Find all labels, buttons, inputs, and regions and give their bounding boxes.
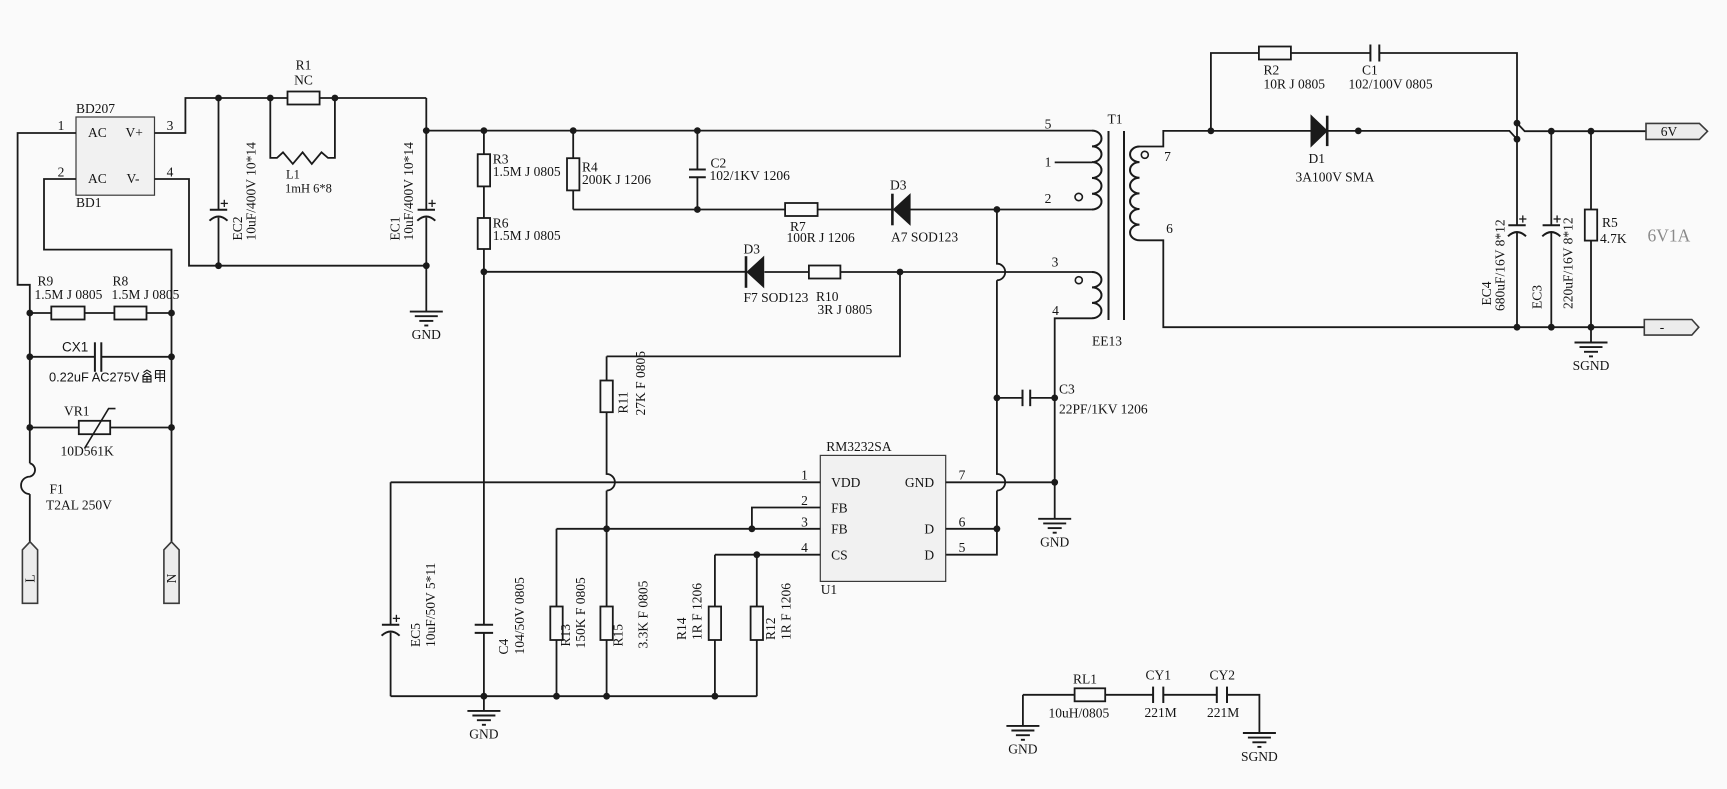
svg-text:SGND: SGND (1241, 749, 1278, 764)
wire T1 pin 6 to output minus rail (1140, 240, 1645, 327)
ground GND primary (410, 266, 443, 343)
wire R15 leads (606, 529, 608, 696)
svg-text:R2: R2 (1264, 62, 1280, 77)
junction N rail / R8 (168, 310, 175, 317)
wire U1 pin3 FB line (557, 528, 821, 530)
wire gnd stub left (1022, 695, 1024, 726)
wire bridge pin4 to DC minus rail (155, 179, 427, 266)
junction C3 left (994, 395, 1001, 402)
wire bridge pin2 to N line (44, 179, 172, 313)
svg-text:10D561K: 10D561K (61, 444, 114, 459)
junction R14 gnd (712, 693, 719, 700)
svg-text:EC3: EC3 (1530, 285, 1545, 309)
svg-text:221M: 221M (1145, 705, 1177, 720)
wire T1 pin 7 to D1 line (1140, 131, 1518, 147)
svg-text:AC: AC (88, 171, 107, 186)
terminal 6V (1646, 123, 1708, 139)
svg-text:FB: FB (831, 500, 848, 515)
junction R3 top (481, 127, 488, 134)
svg-text:RM3232SA: RM3232SA (826, 439, 892, 454)
capacitor CY2 (1207, 668, 1239, 721)
wire U1 pin7 GND line (946, 481, 1055, 483)
resistor R7 (785, 203, 855, 245)
svg-text:BD1: BD1 (76, 195, 102, 210)
svg-text:D: D (924, 548, 934, 563)
capacitor CY1 (1145, 668, 1177, 721)
capacitor C1 (1349, 45, 1433, 92)
svg-text:GND: GND (905, 475, 934, 490)
svg-text:F1: F1 (50, 482, 64, 497)
svg-text:VR1: VR1 (64, 403, 90, 418)
svg-text:6V1A: 6V1A (1648, 225, 1691, 245)
svg-text:220uF/16V 8*12: 220uF/16V 8*12 (1561, 217, 1576, 309)
svg-text:200K J 1206: 200K J 1206 (582, 172, 651, 187)
svg-text:GND: GND (1008, 742, 1037, 757)
wire snubber line R4 to T1 pin 2 (573, 209, 1092, 211)
wire U1 pin2 FB (752, 508, 820, 529)
svg-text:GND: GND (412, 327, 441, 342)
junction R6 bottom (481, 268, 488, 275)
ground SGND at CY2 (1241, 733, 1278, 764)
wire R10 junction down to R11 (607, 272, 900, 356)
svg-text:R13: R13 (558, 624, 573, 647)
wire aux line R6 to T1 pin 3 (484, 271, 1092, 273)
junction R15 top (603, 525, 610, 532)
svg-text:U1: U1 (821, 582, 838, 597)
svg-text:3R J 0805: 3R J 0805 (818, 302, 873, 317)
wire VDD line pin1 (391, 481, 821, 483)
svg-text:L: L (23, 574, 38, 582)
diode D3 A7 SOD123 (890, 177, 958, 244)
svg-text:C1: C1 (1362, 62, 1378, 77)
svg-text:D3: D3 (890, 177, 907, 192)
junction snubber left (1208, 127, 1215, 134)
terminal N (164, 542, 179, 604)
svg-text:1.5M J 0805: 1.5M J 0805 (112, 287, 180, 302)
resistor R13 (550, 577, 588, 649)
inductor RL1 (1049, 672, 1110, 721)
svg-text:6: 6 (959, 514, 966, 529)
junction after D1 (1355, 127, 1362, 134)
T1 primary phase dot (1075, 193, 1082, 200)
junction CX1 right (168, 353, 175, 360)
svg-text:3.3K F 0805: 3.3K F 0805 (636, 580, 651, 648)
svg-text:1R F 1206: 1R F 1206 (779, 583, 794, 640)
wire R4 leads (572, 131, 574, 210)
svg-text:1.5M J 0805: 1.5M J 0805 (493, 164, 561, 179)
resistor R5 (1585, 210, 1627, 246)
svg-text:4.7K: 4.7K (1600, 231, 1627, 246)
svg-text:AC: AC (88, 125, 107, 140)
terminal L (22, 542, 37, 604)
capacitor C3 (1023, 381, 1148, 416)
svg-text:V+: V+ (126, 125, 143, 140)
ground SGND output (1573, 327, 1610, 373)
wire HV rail (426, 130, 1092, 132)
svg-text:CX1: CX1 (62, 340, 88, 355)
junction R15 gnd (603, 693, 610, 700)
junction EC4 bottom (1514, 324, 1521, 331)
capacitor CX1 (49, 340, 140, 385)
wire CX1 line (30, 356, 172, 358)
resistor R11 (600, 351, 648, 416)
svg-text:R1: R1 (296, 58, 312, 73)
capacitor C4 (475, 577, 527, 655)
svg-text:C3: C3 (1059, 381, 1075, 396)
junction EC3 top (1548, 128, 1555, 135)
svg-text:V-: V- (127, 171, 141, 186)
wire L rail vertical (29, 313, 31, 463)
wire C2 leads (696, 131, 698, 210)
svg-text:221M: 221M (1207, 705, 1239, 720)
resistor R12 (751, 583, 794, 640)
svg-text:R11: R11 (616, 391, 631, 413)
terminal minus (1644, 320, 1699, 336)
wire R12 leads (756, 555, 758, 697)
svg-text:C4: C4 (496, 638, 511, 654)
bridge rectifier BD1 (BD207) (76, 101, 155, 210)
wire N rail vertical (171, 313, 173, 542)
junction secondary gnd (1051, 479, 1058, 486)
junction C2 bottom (694, 206, 701, 213)
resistor R6 (478, 216, 561, 250)
wire R14 leads (714, 555, 716, 697)
junction EC1 bottom (423, 262, 430, 269)
svg-text:R12: R12 (763, 617, 778, 640)
svg-text:R5: R5 (1602, 215, 1618, 230)
svg-text:1: 1 (58, 118, 65, 133)
svg-text:6V: 6V (1661, 124, 1678, 139)
resistor R14 (674, 583, 721, 640)
resistor R3 (478, 152, 561, 187)
wire U1 pin6 D (946, 528, 997, 530)
ground GND at U1 (1038, 482, 1071, 549)
wire low side gnd rail (391, 695, 757, 697)
junction VR1 right (168, 424, 175, 431)
svg-text:CY2: CY2 (1210, 668, 1236, 683)
svg-text:BD207: BD207 (76, 101, 115, 116)
junction R10 out (897, 269, 904, 276)
svg-text:N: N (164, 573, 179, 583)
wire bridge pin1 to L line (18, 133, 76, 313)
resistor R2 (1259, 47, 1325, 92)
svg-text:1: 1 (1045, 155, 1052, 170)
svg-text:RL1: RL1 (1073, 672, 1097, 687)
svg-text:7: 7 (1164, 149, 1171, 164)
wire C4 bottom lead (483, 633, 485, 696)
varistor VR1 (61, 403, 116, 458)
wire R11 vertical with hop over VDD line (607, 356, 615, 528)
capacitor EC4 (1479, 215, 1526, 311)
transformer T1 auxiliary winding (1092, 272, 1102, 318)
label CX1 Chinese bei-yong (143, 370, 165, 382)
svg-text:GND: GND (469, 727, 498, 742)
svg-text:EC5: EC5 (408, 623, 423, 647)
resistor R15 (600, 580, 650, 648)
capacitor EC3 (1530, 215, 1576, 309)
wire R9-R8 series line (30, 312, 172, 314)
fuse F1 (21, 463, 112, 512)
svg-text:7: 7 (959, 468, 966, 483)
junction EC2 bottom (215, 262, 222, 269)
svg-text:10uF/50V 5*11: 10uF/50V 5*11 (423, 563, 438, 647)
wire U1 pin4 CS line (715, 554, 820, 556)
junction L rail / R9 (26, 310, 33, 317)
resistor R10 (809, 266, 873, 318)
wire T1 pin 4 to C3/GND (1055, 318, 1092, 482)
svg-text:CS: CS (831, 548, 848, 563)
wire 6V rail (1517, 123, 1646, 131)
junction C4 gnd (481, 693, 488, 700)
svg-text:3A100V SMA: 3A100V SMA (1296, 169, 1375, 184)
svg-text:0.22uF AC275V: 0.22uF AC275V (49, 369, 140, 384)
wire C3 leads (997, 397, 1055, 399)
svg-text:10R J 0805: 10R J 0805 (1264, 77, 1326, 92)
wire R5 leads (1590, 131, 1592, 327)
transformer T1 core (1092, 111, 1124, 348)
junction CX1 left (26, 353, 33, 360)
wire EC1 vertical (425, 98, 427, 266)
svg-text:3: 3 (1052, 255, 1059, 270)
svg-text:NC: NC (294, 72, 313, 87)
svg-text:4: 4 (1052, 303, 1059, 318)
svg-text:L1: L1 (286, 168, 300, 182)
svg-text:150K F 0805: 150K F 0805 (573, 577, 588, 649)
junction R12 top (753, 551, 760, 558)
junction R1 right (332, 95, 339, 102)
wire R3-R6 vertical chain (483, 131, 485, 272)
svg-text:6: 6 (1166, 221, 1173, 236)
svg-text:GND: GND (1040, 534, 1069, 549)
svg-text:-: - (1660, 320, 1665, 335)
junction EC2 top (215, 95, 222, 102)
junction drain net top (994, 206, 1001, 213)
junction HV rail tap (423, 127, 430, 134)
svg-text:T1: T1 (1108, 111, 1123, 126)
junction C1 to 6V rail (1514, 120, 1521, 127)
resistor R9 (35, 274, 103, 320)
wire EC5 vertical VDD branch (390, 482, 392, 696)
junction C2 top (694, 127, 701, 134)
svg-text:D1: D1 (1309, 151, 1326, 166)
ground GND at RL1 (1006, 726, 1039, 757)
svg-text:3: 3 (167, 118, 174, 133)
wire drain net vertical with hops (946, 210, 1006, 555)
transformer T1 primary winding (1092, 131, 1102, 210)
svg-text:5: 5 (959, 540, 966, 555)
junction VR1 left (26, 424, 33, 431)
junction R4 top (570, 127, 577, 134)
svg-text:1R F 1206: 1R F 1206 (690, 583, 705, 640)
capacitor C2 (689, 156, 790, 184)
svg-text:F7 SOD123: F7 SOD123 (744, 290, 809, 305)
junction R1 left (267, 95, 274, 102)
svg-text:2: 2 (801, 493, 808, 508)
svg-text:T2AL 250V: T2AL 250V (46, 498, 112, 513)
svg-text:D3: D3 (744, 241, 761, 256)
svg-text:D: D (924, 522, 934, 537)
wire R13 leads (556, 529, 558, 696)
svg-text:1mH 6*8: 1mH 6*8 (285, 182, 332, 196)
svg-text:10uF/400V 10*14: 10uF/400V 10*14 (401, 142, 416, 241)
junction R13 gnd (553, 693, 560, 700)
svg-text:5: 5 (1045, 116, 1052, 131)
IC U1 RM3232SA (820, 439, 945, 597)
wire EC4 vertical (1516, 123, 1518, 327)
junction D pins (994, 525, 1001, 532)
svg-text:R15: R15 (611, 624, 626, 647)
svg-text:10uF/400V 10*14: 10uF/400V 10*14 (244, 142, 259, 241)
svg-text:SGND: SGND (1573, 358, 1610, 373)
diode D3 F7 SOD123 (744, 241, 809, 305)
junction D1 to EC4 (1514, 136, 1521, 143)
svg-text:4: 4 (801, 540, 808, 555)
wire gnd bridge line (1023, 695, 1260, 733)
wire EC2 vertical (218, 98, 220, 266)
resistor R8 (112, 274, 180, 320)
svg-text:1.5M J 0805: 1.5M J 0805 (493, 228, 561, 243)
svg-text:2: 2 (1045, 191, 1052, 206)
wire bridge pin3 to DC top rail (155, 98, 427, 133)
wire EC3 vertical (1550, 131, 1552, 327)
wire F1 to terminal L (29, 494, 31, 542)
T1 secondary phase dot (1141, 151, 1148, 158)
svg-text:27K F 0805: 27K F 0805 (633, 351, 648, 416)
svg-text:1.5M J 0805: 1.5M J 0805 (35, 287, 103, 302)
svg-text:EE13: EE13 (1092, 334, 1122, 349)
svg-text:1: 1 (801, 468, 808, 483)
svg-text:22PF/1KV 1206: 22PF/1KV 1206 (1059, 402, 1148, 417)
capacitor EC1 (388, 142, 436, 241)
wire VR1 line (30, 427, 172, 429)
T1 pin 1 stub (1055, 161, 1092, 163)
svg-text:2: 2 (58, 165, 65, 180)
transformer T1 secondary winding (1130, 147, 1140, 241)
svg-text:4: 4 (167, 165, 174, 180)
diode D1 3A100V SMA (1296, 115, 1375, 184)
T1 aux phase dot (1075, 277, 1082, 284)
svg-text:102/1KV 1206: 102/1KV 1206 (710, 168, 791, 183)
inductor L1 (270, 98, 335, 196)
junction C3 right (1051, 395, 1058, 402)
ground GND low side (467, 696, 500, 741)
capacitor EC5 (382, 563, 438, 647)
junction R5 top (1588, 128, 1595, 135)
resistor R4 (567, 158, 651, 190)
junction FB pins (749, 525, 756, 532)
wire snubber R2C1 branch (1211, 53, 1517, 131)
resistor R1 (288, 58, 320, 105)
junction R5 bottom (1588, 324, 1595, 331)
svg-text:VDD: VDD (831, 475, 860, 490)
svg-text:FB: FB (831, 522, 848, 537)
junction EC3 bottom (1548, 324, 1555, 331)
wire R6 bottom to C4 vertical (483, 272, 485, 625)
svg-text:CY1: CY1 (1146, 668, 1172, 683)
svg-text:R14: R14 (674, 617, 689, 640)
svg-text:104/50V 0805: 104/50V 0805 (512, 577, 527, 655)
svg-text:102/100V 0805: 102/100V 0805 (1349, 77, 1433, 92)
svg-text:680uF/16V 8*12: 680uF/16V 8*12 (1493, 219, 1508, 311)
svg-text:3: 3 (801, 514, 808, 529)
svg-text:A7 SOD123: A7 SOD123 (891, 230, 958, 245)
svg-text:100R J 1206: 100R J 1206 (787, 230, 856, 245)
capacitor EC2 (210, 142, 259, 241)
svg-text:10uH/0805: 10uH/0805 (1049, 706, 1110, 721)
